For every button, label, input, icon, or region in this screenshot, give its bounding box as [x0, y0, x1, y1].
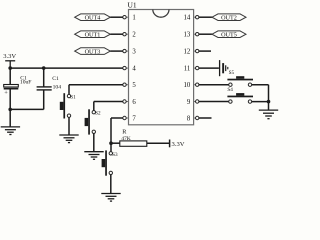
svg-text:S5: S5: [229, 70, 235, 76]
wire OUT3 to pin 3: [110, 50, 123, 52]
switch S2 (push button): [85, 109, 101, 134]
junction caps to ground: [8, 108, 12, 112]
U1 pin 11 (right): [184, 66, 199, 73]
wire pin 14 to OUT2: [199, 16, 212, 18]
port OUT1: [75, 31, 111, 39]
U1 pin 1 (left): [123, 15, 136, 22]
wire S2 to ground G3: [93, 134, 95, 152]
switch S6 (push button, pin 9): [227, 93, 253, 103]
svg-text:+: +: [4, 90, 8, 97]
C1 polarity +: [4, 90, 8, 97]
svg-text:14: 14: [184, 15, 191, 22]
C2 value 104: [53, 84, 62, 90]
wire pin 10 to S4: [199, 84, 229, 86]
svg-text:47K: 47K: [121, 136, 131, 142]
svg-text:U1: U1: [128, 0, 137, 9]
U1 pin 9 (right): [187, 99, 199, 106]
switch S1 (push button): [60, 93, 76, 118]
wire rail to ground G5: [268, 102, 270, 111]
C1 label: [20, 75, 27, 81]
wire to ground G1: [9, 109, 11, 127]
wire C2 bottom: [43, 90, 45, 110]
wire rail to C2 top: [43, 68, 45, 87]
resistor R 47K body: [120, 141, 147, 146]
svg-text:S2: S2: [95, 111, 101, 117]
svg-text:OUT1: OUT1: [85, 31, 101, 38]
wire S4 to right rail: [252, 85, 269, 102]
R label: [122, 129, 127, 136]
wire rail to C1 top: [9, 68, 11, 84]
wire pin 5 to S1: [69, 85, 123, 95]
port OUT2: [212, 14, 246, 22]
svg-text:S3: S3: [112, 152, 118, 158]
wire cap bottoms join: [10, 108, 44, 110]
U1 pin 2 (left): [123, 32, 137, 39]
svg-text:OUT5: OUT5: [221, 31, 237, 38]
ground G1 (caps): [1, 127, 20, 135]
wire S3 to ground G4: [110, 175, 112, 194]
C2 label: [52, 76, 59, 82]
switch S3 (push button): [102, 150, 118, 175]
U1 pin 6 (left): [123, 99, 137, 106]
svg-text:104: 104: [53, 84, 62, 90]
U1 pin 3 (left): [123, 49, 137, 56]
U1 pin 13 (right): [184, 32, 199, 39]
U1 pin 4 (left): [123, 66, 137, 73]
wire S6 to right rail: [252, 101, 269, 103]
svg-text:S1: S1: [70, 94, 76, 100]
port OUT3: [75, 48, 111, 56]
wire stub pin 12: [199, 50, 211, 52]
wire pin 11 to S5 ground: [199, 67, 219, 69]
wire pin 13 to OUT5: [199, 33, 212, 35]
wire pin 6 to S2: [94, 102, 123, 111]
U1 pin 12 (right): [184, 49, 199, 56]
wire 3.3V rail to pin 4: [10, 67, 123, 69]
svg-text:7: 7: [132, 115, 136, 122]
svg-text:6: 6: [132, 99, 136, 106]
power port 3.3V (top left): [3, 53, 16, 68]
svg-text:5: 5: [132, 82, 136, 89]
U1 pin 7 (left): [123, 115, 137, 122]
svg-text:C1: C1: [52, 76, 59, 82]
svg-text:3: 3: [132, 49, 136, 56]
svg-text:3.3V: 3.3V: [172, 141, 185, 148]
svg-text:OUT4: OUT4: [85, 14, 101, 21]
svg-text:OUT2: OUT2: [221, 14, 237, 21]
wire C1 bottom: [9, 90, 11, 110]
junction at C2 top: [42, 66, 46, 70]
capacitor C1 10uF (electrolytic): [4, 85, 19, 90]
wire pin 7 left and down: [111, 118, 123, 152]
wire junction to resistor R: [111, 142, 120, 144]
port OUT5: [212, 31, 246, 39]
ground S5 (rotated, pin 11): [220, 60, 235, 76]
svg-text:8: 8: [187, 115, 191, 122]
svg-text:2: 2: [132, 32, 136, 39]
svg-text:13: 13: [184, 32, 191, 39]
wire pin 9 to S6: [199, 101, 229, 103]
wire OUT4 to pin 1: [110, 16, 123, 18]
svg-text:9: 9: [187, 99, 191, 106]
ground G3 (S2): [84, 152, 103, 160]
svg-text:4: 4: [132, 66, 136, 73]
ground G5 (right buttons): [259, 110, 278, 119]
svg-text:10uF: 10uF: [20, 80, 32, 86]
svg-text:S4: S4: [227, 87, 233, 93]
capacitor C2 (104): [37, 87, 52, 90]
U1 pin 14 (right): [184, 15, 199, 22]
svg-text:11: 11: [184, 66, 191, 73]
switch S4 (push button): [227, 76, 253, 93]
svg-text:10: 10: [184, 82, 191, 89]
R value 47K: [121, 136, 131, 142]
U1 pin 5 (left): [123, 82, 137, 89]
C1 value 10uF: [20, 80, 32, 86]
svg-text:OUT3: OUT3: [85, 48, 101, 55]
wire R to 3.3V: [147, 142, 169, 144]
wire stub pin 8: [199, 117, 212, 119]
wire OUT1 to pin 2: [110, 33, 123, 35]
port OUT4: [75, 14, 111, 22]
svg-text:3.3V: 3.3V: [3, 53, 16, 60]
U1 pin 8 (right): [187, 115, 199, 122]
svg-text:1: 1: [132, 15, 135, 22]
junction right rail: [267, 100, 271, 104]
svg-text:12: 12: [184, 49, 191, 56]
junction pin7/R/S3: [109, 141, 113, 145]
U1 reference designator: [128, 0, 137, 9]
U1 pin 10 (right): [184, 82, 199, 89]
ground G2 (S1): [59, 135, 78, 143]
power port 3.3V (right of R): [170, 140, 185, 148]
wire S1 to ground G2: [68, 118, 70, 136]
ground G4 (S3): [101, 194, 120, 202]
op-amp U1 body (14-pin DIP outline): [129, 10, 194, 125]
junction at 3.3V stem: [8, 66, 12, 70]
